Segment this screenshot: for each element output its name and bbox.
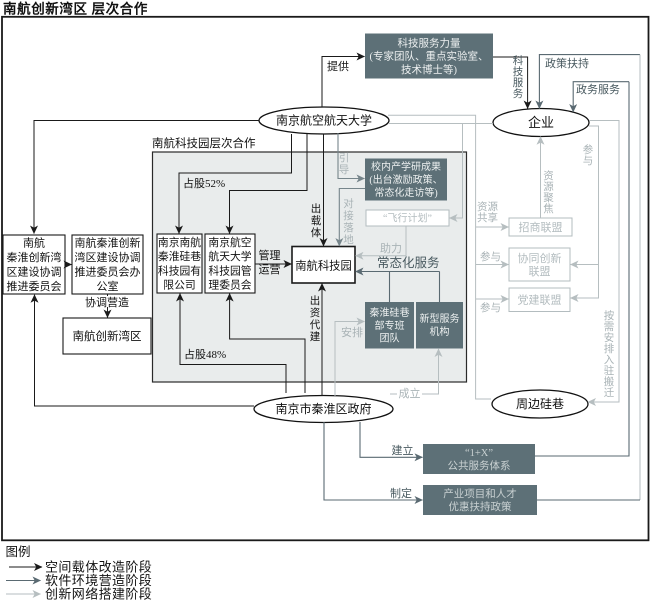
svg-text:周边硅巷: 周边硅巷 [516, 397, 564, 411]
arrow 大学 占股52% to 有限公司 [179, 134, 292, 234]
svg-text:入: 入 [604, 354, 615, 366]
svg-text:代: 代 [310, 319, 321, 331]
svg-text:服: 服 [513, 77, 524, 89]
arrow 大学 to 委员会 top [34, 121, 259, 234]
svg-text:提供: 提供 [327, 59, 349, 73]
arrow 企业 参与 to 党建联盟 right [571, 126, 599, 298]
svg-text:部专班: 部专班 [375, 319, 405, 332]
svg-text:常态化服务: 常态化服务 [377, 255, 440, 270]
box 校内产学研成果 [365, 159, 447, 201]
ellipse 周边硅巷 [492, 390, 588, 418]
svg-text:团队: 团队 [380, 331, 400, 344]
box 新型服务机构 [416, 302, 463, 349]
box 秦淮硅巷部专班团队 [365, 302, 414, 349]
arrow 企业 按需安排入驻搬迁 to 周边硅巷 [588, 121, 619, 403]
svg-text:南京航空航天大学: 南京航空航天大学 [276, 113, 372, 128]
svg-text:焦: 焦 [543, 202, 554, 215]
svg-text:出: 出 [311, 202, 322, 215]
svg-text:公室: 公室 [97, 279, 119, 293]
svg-text:党建联盟: 党建联盟 [518, 293, 562, 307]
arrow 政务服务 to 企业 [573, 82, 629, 112]
svg-text:需: 需 [604, 321, 615, 333]
svg-text:常态化走访等): 常态化走访等) [374, 186, 437, 199]
svg-text:落: 落 [343, 222, 354, 234]
wire 产业项目 to 政策扶持 [537, 499, 640, 501]
arrow 政府 to 管委会 [230, 294, 305, 394]
inner gray region 南航科技园层次合作 [153, 152, 467, 382]
svg-text:资: 资 [543, 170, 554, 182]
svg-text:安排: 安排 [341, 325, 363, 339]
svg-text:体: 体 [311, 227, 322, 239]
svg-text:政策扶持: 政策扶持 [545, 56, 589, 70]
arrow 委员会 to 办公室 [65, 264, 72, 266]
svg-text:政务服务: 政务服务 [576, 82, 620, 96]
box 飞行计划 [366, 210, 449, 226]
svg-text:出: 出 [310, 294, 321, 307]
svg-text:南航: 南航 [23, 235, 45, 249]
svg-text:聚: 聚 [543, 192, 554, 204]
svg-text:限公司: 限公司 [163, 279, 195, 292]
svg-text:共享: 共享 [477, 211, 498, 224]
svg-text:招商联盟: 招商联盟 [519, 220, 563, 234]
svg-text:建: 建 [310, 330, 321, 343]
arrow 企业 参与 to 协同创新联盟 right [571, 264, 599, 266]
svg-text:机构: 机构 [430, 325, 450, 338]
wire 政策扶持 vertical [639, 55, 641, 500]
arrow 科技服务力量 科技服务 to 企业 [493, 57, 528, 109]
wire 大学 to 周边硅巷 [388, 115, 491, 399]
svg-text:占股52%: 占股52% [183, 176, 225, 190]
svg-text:航天大学: 航天大学 [208, 249, 251, 263]
svg-text:(专家团队、重点实验室、: (专家团队、重点实验室、 [370, 50, 489, 63]
box 南航科技园 [292, 247, 355, 284]
label 协调营造 [83, 296, 131, 307]
arrow 政府 出资代建 to 南航科技园 [321, 284, 323, 397]
ellipse 企业 [493, 109, 589, 137]
ellipse 南京航空航天大学 [259, 107, 389, 134]
arrow 招商联盟 资源聚焦 to 企业 [540, 137, 542, 218]
wire 专班团队 to 常态化服务 [389, 272, 391, 303]
svg-text:校内产学研成果: 校内产学研成果 [371, 160, 441, 173]
box 南航秦淮创新湾区建设协调推进委员会 [3, 235, 65, 294]
box 南航秦淮创新湾区建设协调推进委员会办公室 [72, 235, 143, 294]
svg-text:秦淮硅巷: 秦淮硅巷 [158, 249, 201, 263]
svg-text:企业: 企业 [528, 115, 554, 130]
legend arrow 创新网络搭建阶段 [6, 593, 41, 595]
svg-text:务: 务 [513, 87, 524, 100]
svg-text:湾区建设协调: 湾区建设协调 [75, 250, 141, 264]
svg-text:秦淮硅巷: 秦淮硅巷 [370, 306, 410, 319]
legend arrow 软件环境营造阶段 [6, 580, 41, 582]
arrow 大学 to 管委会 [230, 134, 308, 234]
arrow 大学 引导 to 校内产学研成果 [338, 133, 365, 179]
svg-text:按: 按 [604, 309, 615, 322]
svg-text:联盟: 联盟 [529, 265, 551, 278]
box 南航创新湾区 [63, 318, 151, 354]
svg-text:载: 载 [311, 215, 322, 227]
box 党建联盟 [509, 288, 570, 312]
svg-text:(出台激励政策、: (出台激励政策、 [369, 173, 442, 186]
svg-text:理委员会: 理委员会 [208, 279, 251, 292]
box 招商联盟 [509, 218, 572, 236]
svg-text:科技园管: 科技园管 [208, 263, 251, 277]
svg-text:接: 接 [343, 209, 354, 222]
arrow 办公室 to 南航创新湾区 协调营造 [107, 294, 109, 318]
svg-text:南航科技园层次合作: 南航科技园层次合作 [152, 136, 256, 150]
arrow 参与 to 协同创新联盟 [476, 264, 509, 266]
svg-text:图例: 图例 [6, 545, 31, 559]
svg-text:建立: 建立 [392, 443, 414, 457]
wire 1+X to 政务服务 [535, 82, 629, 456]
svg-text:“飞行计划”: “飞行计划” [383, 212, 432, 225]
svg-text:新型服务: 新型服务 [420, 312, 460, 325]
arrow 管委会 管理运营 to 南航科技园 [255, 263, 292, 265]
svg-text:占股48%: 占股48% [184, 347, 226, 361]
svg-text:迁: 迁 [604, 387, 615, 399]
svg-text:成立: 成立 [399, 386, 421, 400]
svg-text:秦淮创新湾: 秦淮创新湾 [7, 250, 62, 264]
arrow 常态化服务 to 南航科技园 [356, 271, 440, 273]
svg-text:技: 技 [513, 65, 524, 78]
svg-text:区建设协调: 区建设协调 [7, 265, 62, 279]
svg-text:协调营造: 协调营造 [85, 295, 129, 309]
svg-text:参: 参 [583, 143, 594, 156]
arrow 政府 占股48% to 有限公司 [180, 294, 286, 394]
svg-text:安: 安 [604, 331, 615, 344]
svg-text:制定: 制定 [390, 486, 412, 500]
svg-text:对: 对 [343, 197, 354, 210]
box 协同创新联盟 [509, 248, 570, 281]
svg-text:产业项目和人才: 产业项目和人才 [443, 487, 517, 500]
svg-text:推进委员会办: 推进委员会办 [75, 265, 141, 279]
label 成立 [397, 388, 422, 399]
svg-text:引: 引 [339, 151, 350, 164]
arrow 资源共享 to 招商联盟 [476, 226, 509, 228]
arrow 政府 成立 to 新型服务机构 [390, 349, 439, 394]
svg-text:驻: 驻 [604, 364, 615, 377]
svg-text:南航创新湾区 层次合作: 南航创新湾区 层次合作 [3, 1, 148, 17]
arrow 政策扶持 to 企业 [539, 55, 640, 109]
arrow 校内产学研成果 对接落地 to 南航科技园 [339, 189, 365, 247]
arrow 飞行计划 助力 to 南航科技园 [356, 226, 407, 256]
svg-text:排: 排 [604, 342, 615, 355]
box 1+X公共服务体系 [423, 444, 535, 474]
svg-text:推进委员会: 推进委员会 [7, 279, 62, 293]
svg-text:运营: 运营 [259, 262, 281, 276]
box 南京航空航天大学科技园管理委员会 [205, 234, 255, 293]
svg-text:管理: 管理 [259, 248, 281, 262]
svg-text:科技服务力量: 科技服务力量 [398, 37, 461, 50]
svg-text:源: 源 [543, 180, 554, 193]
svg-text:南京南航: 南京南航 [158, 235, 201, 249]
box 南京南航秦淮硅巷科技园有限公司 [157, 234, 202, 293]
legend arrow 空间载体改造阶段 [9, 566, 42, 568]
svg-text:南航秦淮创新: 南航秦淮创新 [75, 235, 141, 249]
arrow 政府 制定 to 产业项目 [324, 422, 423, 500]
svg-text:南京航空: 南京航空 [208, 235, 251, 249]
ellipse 南京市秦淮区政府 [254, 396, 393, 423]
svg-text:资源: 资源 [477, 200, 498, 213]
wire 大学 to 企业 [389, 123, 493, 125]
svg-text:地: 地 [343, 233, 354, 246]
svg-text:参与: 参与 [480, 301, 501, 314]
svg-text:技术博士等): 技术博士等) [401, 63, 457, 76]
arrow 参与 to 党建联盟 [476, 298, 509, 300]
box 产业项目和人才优惠扶持政策 [423, 485, 537, 515]
svg-text:优惠扶持政策: 优惠扶持政策 [449, 500, 512, 513]
svg-text:与: 与 [583, 155, 594, 167]
svg-text:公共服务体系: 公共服务体系 [448, 459, 511, 472]
svg-text:南航科技园: 南航科技园 [295, 259, 352, 273]
arrow 大学 提供 to 科技服务力量 [322, 57, 365, 108]
wire 新型服务机构 to 常态化服务 [439, 272, 441, 303]
svg-text:科: 科 [513, 54, 524, 67]
svg-text:科技园有: 科技园有 [158, 263, 201, 277]
svg-text:南京市秦淮区政府: 南京市秦淮区政府 [275, 401, 371, 416]
svg-text:资: 资 [310, 307, 321, 319]
box 科技服务力量 [365, 34, 493, 79]
svg-text:搬: 搬 [604, 375, 615, 388]
svg-text:参与: 参与 [480, 250, 501, 263]
svg-text:协同创新: 协同创新 [518, 251, 562, 265]
svg-text:“1+X”: “1+X” [465, 448, 493, 459]
arrow 大学 出载体 to 南航科技园 [323, 134, 325, 246]
arrow 企业 to 飞行计划 [450, 124, 463, 219]
arrow 政府 建立 to 1+X [360, 422, 423, 457]
arrow 政府 to 委员会 bottom [35, 295, 255, 406]
svg-text:创新网络搭建阶段: 创新网络搭建阶段 [45, 587, 152, 602]
svg-text:导: 导 [339, 164, 350, 176]
svg-text:助力: 助力 [380, 241, 402, 255]
arrow 政府 安排 to 专班团队 [335, 322, 365, 397]
svg-text:南航创新湾区: 南航创新湾区 [73, 329, 142, 343]
